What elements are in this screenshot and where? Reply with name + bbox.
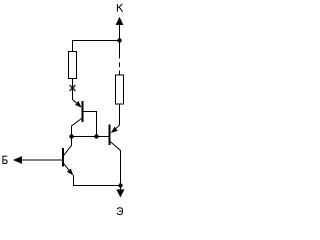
crossed-wire mark on Q1 emitter lead: [70, 85, 76, 91]
wire R2 lead dash: [119, 63, 121, 68]
terminal K arrow: [116, 17, 124, 25]
Q1 base lead right then down: [84, 112, 97, 137]
resistor R1: [69, 52, 77, 79]
node junction bottom: [118, 183, 122, 187]
wire top rail: [72, 40, 120, 42]
Q2 emitter wire: [116, 125, 119, 128]
Q3 base lead from left: [22, 159, 63, 161]
Q3 collector from left node down to bar: [64, 137, 72, 156]
wire R1 top lead: [72, 41, 74, 53]
Q2 collector diagonal down-right: [111, 142, 121, 186]
transistor Q2 (PNP) base bar: [109, 125, 111, 146]
wire R2 bottom lead: [119, 104, 121, 125]
Q2 emitter arrow into bar: [111, 127, 118, 133]
wire base net horizontal: [72, 136, 109, 138]
resistor R2: [116, 75, 124, 104]
terminal B arrow: [13, 156, 22, 164]
node junction right: [94, 134, 98, 138]
terminal E label: [117, 208, 122, 215]
transistor Q1 (PNP) base bar: [82, 101, 84, 122]
terminal B label: [3, 156, 7, 164]
wire R1 bottom lead: [72, 79, 74, 100]
Q3 emitter wire down then right: [73, 175, 120, 185]
wire R2 upper lead solid part: [119, 41, 121, 59]
terminal E arrow: [116, 189, 124, 197]
Q1 emitter arrow into bar: [75, 101, 81, 108]
wire K stem: [119, 24, 121, 40]
Q3 emitter diagonal: [64, 164, 69, 170]
terminal E arrow stem: [120, 186, 122, 191]
Q3 emitter arrow pointing out: [67, 169, 73, 176]
wire R2 lead-in: [119, 71, 121, 76]
terminal K label: [117, 4, 122, 12]
Q1 collector diagonal down-left: [72, 119, 82, 137]
transistor Q3 (NPN) base bar: [62, 148, 64, 167]
node junction left: [69, 134, 73, 138]
Q1 emitter wire: [73, 100, 78, 104]
node junction top: [117, 38, 121, 42]
